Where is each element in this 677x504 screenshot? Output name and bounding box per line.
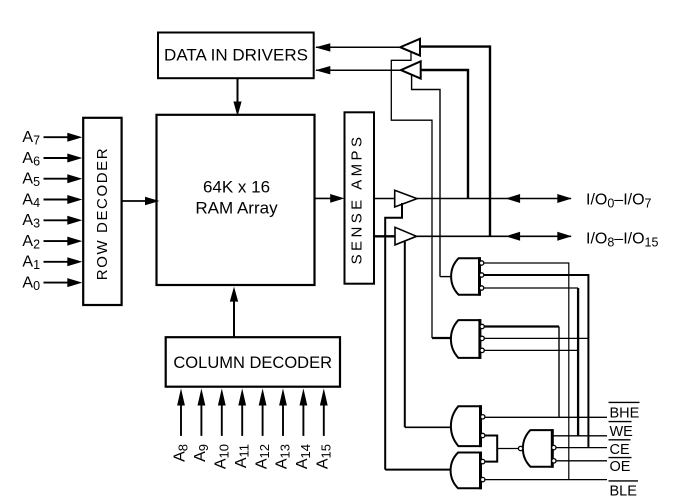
input A4 with arrow [22, 191, 82, 210]
block U4 SENSE AMPS [345, 112, 375, 283]
wire I/O0-I/O7 bus line [417, 194, 572, 203]
wire G5 output to G3/G4 node [497, 448, 518, 450]
wire G1 output to B2 enable [440, 276, 451, 278]
input A3 with arrow [22, 212, 82, 231]
block U1 DATA IN DRIVERS [158, 33, 314, 79]
gate G5 (WE/CE/OE control NAND) [518, 429, 556, 468]
buffer B4 (output lower) [395, 227, 417, 245]
label BLE [609, 481, 639, 499]
buffer B2 (data-in lower) [401, 61, 421, 78]
wire B3 enable from gate G4 [385, 203, 402, 470]
svg-text:CE: CE [610, 442, 630, 458]
wire ROW DECODER to RAM with arrow [122, 197, 159, 206]
wire G3 output to B4 enable [405, 426, 451, 428]
wire CE net [556, 447, 607, 449]
wire BLE net [485, 479, 607, 481]
wire B2 input from I/O0-7 riser [421, 70, 468, 199]
svg-text:A10: A10 [213, 444, 232, 469]
svg-text:ROW DECODER: ROW DECODER [94, 147, 111, 280]
input A7 with arrow [22, 129, 82, 148]
wire SENSE AMPS to B4 [374, 235, 395, 237]
svg-text:DATA IN DRIVERS: DATA IN DRIVERS [164, 46, 308, 65]
svg-text:A15: A15 [315, 444, 334, 469]
gate G2 (3-input AND, high-byte write) [451, 319, 484, 359]
wire G1 input3 to WE [484, 288, 578, 436]
label CE [609, 440, 631, 458]
wire COLUMN DECODER to RAM with arrow [230, 287, 238, 338]
wire G2 input1 to BHE [484, 327, 559, 418]
wire B1 input from I/O8-15 riser [420, 47, 490, 237]
wire B4 enable from gate G3 [404, 241, 406, 427]
input A12 with arrow [253, 388, 272, 469]
wire G2 input2 to CE riser [484, 337, 588, 339]
block U5 COLUMN DECODER [166, 337, 340, 387]
label OE [609, 458, 632, 475]
svg-text:A11: A11 [233, 444, 252, 468]
wire B1 output to DATA IN DRIVERS with arrow [315, 43, 400, 51]
wire B1 enable from gate G2 [391, 52, 432, 338]
wire I/O8-I/O15 bus line [417, 232, 572, 241]
label BHE [609, 402, 640, 421]
wire G1 input2 to CE [484, 275, 589, 448]
buffer B1 (data-in upper) [400, 39, 420, 56]
wire OE net [556, 460, 607, 462]
block U2 ROW DECODER [83, 118, 121, 305]
svg-text:RAM Array: RAM Array [195, 198, 278, 217]
svg-text:A8: A8 [172, 444, 191, 462]
svg-text:A14: A14 [294, 444, 313, 469]
block U3 64K x 16 RAM Array [157, 115, 315, 285]
gate G1 (3-input AND, low-byte write) [451, 257, 484, 296]
input A1 with arrow [22, 254, 82, 273]
svg-text:SENSE AMPS: SENSE AMPS [348, 134, 365, 265]
wire B2 output to DATA IN DRIVERS with arrow [315, 66, 401, 74]
input A15 with arrow [315, 388, 334, 469]
svg-text:A9: A9 [192, 444, 211, 462]
input A9 with arrow [192, 388, 211, 462]
input A6 with arrow [22, 150, 82, 169]
gate G3 (2-input AND, high-byte read) [451, 405, 485, 447]
input A0 with arrow [22, 275, 82, 294]
wire B2 enable from gate G1 [412, 75, 440, 277]
svg-text:OE: OE [610, 459, 631, 475]
wire SENSE AMPS to B3 [374, 198, 395, 200]
label I/O8-I/O15 [586, 231, 658, 250]
wire BHE net [485, 416, 607, 418]
svg-text:WE: WE [610, 424, 634, 440]
input A10 with arrow [213, 388, 232, 469]
input A5 with arrow [22, 171, 82, 190]
wire RAM to SENSE AMPS with arrow [315, 194, 345, 203]
wire G2 input3 to WE riser [484, 349, 578, 351]
svg-text:COLUMN DECODER: COLUMN DECODER [173, 354, 332, 372]
svg-text:I/O0–I/O7: I/O0–I/O7 [586, 192, 652, 211]
input A14 with arrow [294, 388, 313, 469]
wire G4 output to B3 enable [385, 469, 450, 471]
wire WE net [552, 435, 607, 437]
label I/O0-I/O7 [586, 192, 652, 211]
wire G2 output to B1 enable [432, 337, 451, 339]
buffer B3 (output upper) [395, 190, 417, 207]
svg-text:A13: A13 [274, 444, 293, 469]
svg-text:64K x 16: 64K x 16 [203, 177, 270, 196]
svg-text:BHE: BHE [610, 406, 640, 422]
svg-text:A12: A12 [253, 444, 272, 469]
wire G3.in2 to G4.in1 via G5 output node [485, 436, 497, 462]
input A11 with arrow [233, 388, 252, 468]
label WE [609, 422, 634, 440]
wire G1 input1 to BLE [484, 263, 569, 480]
svg-text:BLE: BLE [610, 483, 638, 499]
input A2 with arrow [22, 233, 82, 252]
wire DATA IN DRIVERS to RAM with arrow [233, 78, 241, 116]
input A8 with arrow [172, 388, 191, 462]
input A13 with arrow [274, 388, 293, 469]
gate G4 (2-input AND, low-byte read) [451, 452, 485, 490]
